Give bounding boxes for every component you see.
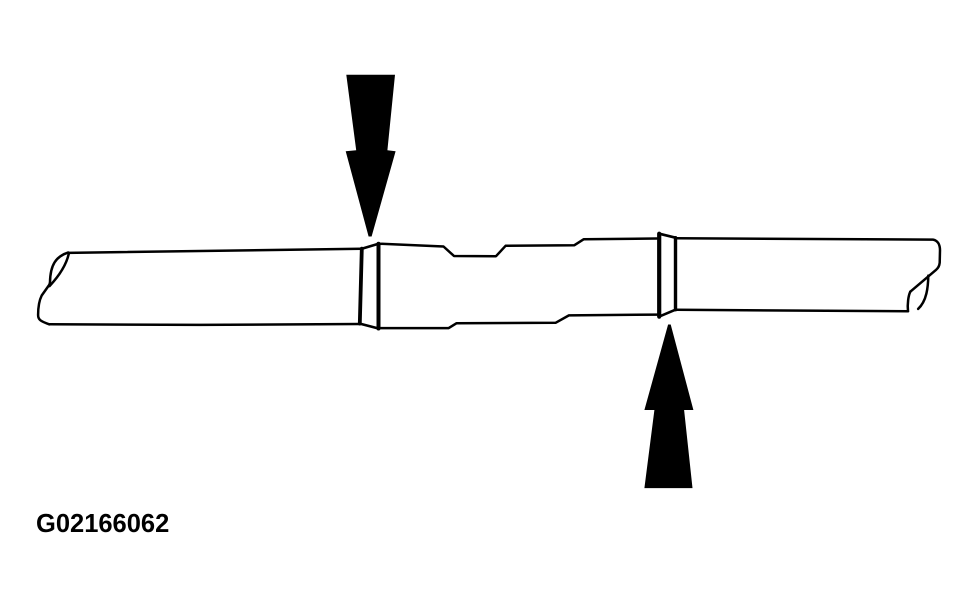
pipe left broken end leaf right arc — [50, 253, 69, 286]
pipe left section bottom line — [50, 323, 360, 326]
clamp 1 bottom edge — [360, 324, 379, 329]
pipe right section bottom line — [676, 310, 909, 311]
figure label G02166062 — [36, 510, 169, 539]
clamp 2 right band line — [674, 238, 677, 310]
pipe left section top line — [68, 249, 362, 253]
pipe right broken end leaf right arc — [918, 276, 928, 309]
pipe right section top line with corner — [676, 238, 941, 291]
pipe left broken end leaf left arc — [50, 253, 69, 285]
up arrow — [644, 325, 693, 489]
down arrow — [346, 75, 396, 237]
clamp 1 right band line — [377, 244, 381, 329]
hose middle top edge with notch — [379, 239, 657, 257]
clamp 1 left band line — [360, 249, 362, 324]
clamp 2 left band line — [657, 234, 661, 317]
clamp 2 bottom edge — [659, 310, 675, 317]
pipe right broken end leaf left arc — [908, 292, 911, 312]
pipe left broken end lower curve — [38, 285, 49, 325]
clamp 2 top edge — [659, 234, 675, 238]
clamp 1 top edge — [362, 244, 379, 249]
hose middle bottom edge with steps — [381, 315, 657, 329]
